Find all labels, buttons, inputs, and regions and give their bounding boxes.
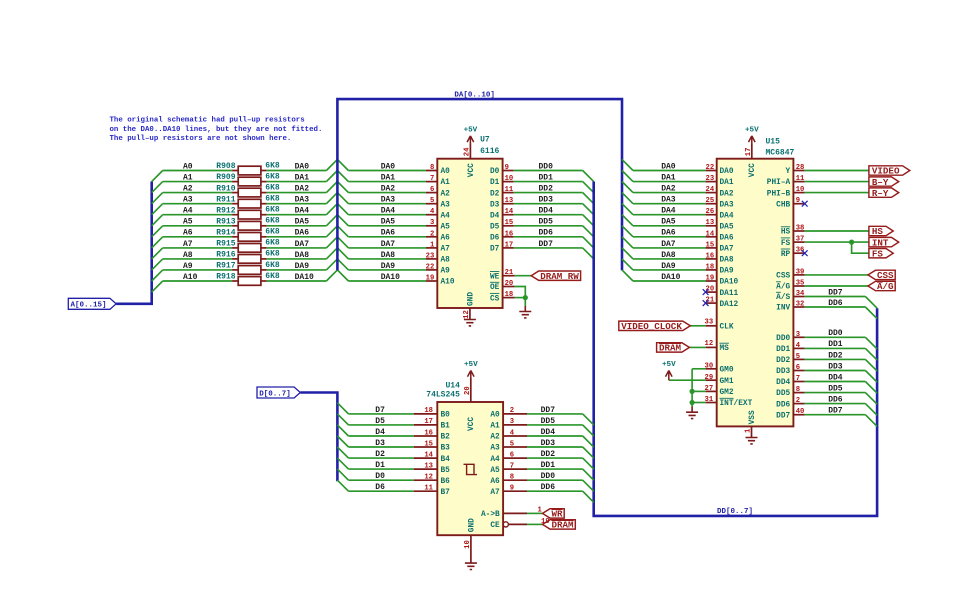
wire DA4 to U7.A4 [348,214,426,216]
U14 pin 5 (A3) stub [503,446,527,448]
svg-text:27: 27 [705,385,714,393]
U14 pin name A2 [490,434,500,442]
wire DD3 from U14.A3 [527,446,583,448]
svg-text:R–Y: R–Y [872,188,889,199]
label DA7 (left) [295,240,310,249]
svg-text:DA12: DA12 [720,301,739,309]
svg-text:23: 23 [426,252,435,260]
wire DD6 from U15 [805,403,866,405]
svg-text:DA7: DA7 [381,240,396,249]
svg-text:B6: B6 [441,478,451,486]
wire DD1 from U7.D1 [514,181,583,183]
U7 pin number 20 [505,280,514,288]
wire DA1 after resistor [267,181,327,183]
junction OE/CS [523,295,528,300]
label DD6 (right) [828,396,843,405]
bus entry D bus to U14.B7 [337,480,348,491]
label DD2 (right) [828,351,843,360]
wire DA6 to U7.A6 [348,236,426,238]
U7 pin 21 (WE) stub [503,275,515,277]
svg-text:6K8: 6K8 [265,250,280,259]
global label A/G (A active low) [868,281,895,292]
U14 pin number 18 [424,407,433,415]
U15 pin number 29 [705,374,714,382]
U15 pin 35 (A/G) stub [793,285,804,287]
svg-text:2: 2 [430,230,434,238]
wire DD6 from U7.D6 [514,236,583,238]
U7 pin number 13 [505,197,514,205]
svg-text:DD2: DD2 [828,351,843,360]
wire OE down to CS [515,287,526,298]
svg-text:VCC: VCC [749,163,757,177]
bus entry DD6 into right DD bus [865,404,877,416]
U14 pin name A->B [481,511,500,519]
wire DA0 to U15.DA0 [633,170,706,172]
svg-text:33: 33 [705,319,714,327]
bus entry DA10 into DA bus (left side) [326,270,337,281]
U14 pin number 9 [510,485,514,493]
global label B-Y [869,177,899,188]
svg-text:A9: A9 [183,262,193,271]
svg-text:A6: A6 [183,229,193,238]
svg-text:6K8: 6K8 [265,206,280,215]
wire DA7 to U15.DA7 [633,247,706,249]
U7 pin 17 (D7) stub [503,247,514,249]
svg-text:FS: FS [872,248,884,259]
bus entry DA0 out of DA bus to U15 [622,159,633,170]
U7 GND pin 12 with ground [463,292,476,326]
label DA5 (at U7) [381,218,396,227]
bus entry DA7 into DA bus (left side) [326,237,337,248]
wire DD4 from U15 [805,381,866,383]
svg-text:The original schematic had pul: The original schematic had pull–up resis… [110,117,305,125]
bus entry DD0 into DD bus [583,171,594,182]
bus entry DA1 into DA bus (left side) [326,171,337,182]
bus entry DA2 out of DA bus (right side) [337,182,348,193]
bus entry A3 [152,204,163,215]
U14 pin name B4 [441,456,451,464]
resistor R918 6K8 [216,272,280,286]
U15 pin number 9 [796,197,800,205]
U7 pin number 2 [430,230,434,238]
U14 direction glyph [464,464,478,474]
U7 pin name CS (active low) [490,293,500,303]
U15 pin name DD3 [776,368,790,376]
svg-text:16: 16 [505,230,514,238]
svg-text:A/G: A/G [877,281,894,292]
U7 pin number 10 [505,175,514,183]
svg-text:DD5: DD5 [541,417,556,426]
svg-text:2: 2 [510,407,514,415]
svg-text:DA3: DA3 [381,196,396,205]
ground at U7 OE/CS [519,306,531,318]
U15 pin number 3 [796,331,800,339]
svg-text:DA1: DA1 [661,174,676,183]
svg-text:DA9: DA9 [661,262,676,271]
svg-text:B–Y: B–Y [872,177,889,188]
svg-text:DD7: DD7 [539,240,554,249]
label DA4 (left) [295,207,310,216]
U15 pin number 18 [706,263,715,271]
U15 pin number 23 [706,175,715,183]
wire DA8 to U15.DA8 [633,258,706,260]
U7 pin number 7 [430,175,434,183]
label DA5 (at U15) [661,218,676,227]
svg-text:17: 17 [745,148,753,157]
label D6 [375,483,385,492]
resistor R909 6K8 [216,172,280,186]
svg-text:DA8: DA8 [295,251,310,260]
label DD1 [541,461,556,470]
wire CS to junction [515,297,526,299]
svg-text:DA10: DA10 [661,273,680,282]
U15 pin name RP [781,249,791,259]
svg-text:DA4: DA4 [295,207,310,216]
bus entry DD2 into DD bus [583,458,594,469]
U7 pin 16 (D6) stub [503,236,514,238]
bus entry DD5 into DD bus [583,226,594,237]
bus entry DA10 out of DA bus (right side) [337,270,348,281]
U14 pin number 2 [510,407,514,415]
wire DD6 from U14.A7 [527,490,583,492]
U15 pin number 37 [796,236,805,244]
wire DD3 from U7.D3 [514,203,583,205]
label DA6 (at U15) [661,229,676,238]
U14 pin 12 (B6) stub [414,479,438,481]
U15 pin number 38 [796,225,805,233]
U7 reference U7 [480,135,490,144]
U15 pin number 30 [705,362,714,370]
U7 pin 7 (A1) stub [426,181,437,183]
U7 pin number 9 [505,164,509,172]
svg-text:25: 25 [706,197,715,205]
label DD7 (at A/S) [828,288,843,297]
svg-text:6K8: 6K8 [265,228,280,237]
global label DRAM (active low) [543,520,576,531]
label DA3 (left) [295,196,310,205]
svg-text:6K8: 6K8 [265,172,280,181]
wire A4 to R912 [163,214,232,216]
U15 pin name DA8 [720,257,734,265]
bus entry DD3 into DD bus [583,447,594,458]
bus entry DD5 into DD bus [583,425,594,436]
svg-text:DD6: DD6 [828,396,843,405]
U14 pin name A0 [490,412,500,420]
svg-text:5: 5 [510,440,514,448]
svg-text:DD3: DD3 [828,362,843,371]
label DA8 (at U15) [661,251,676,260]
label DD0 (right) [828,329,843,338]
wire DD7 from U15 [805,414,866,416]
global label R-Y [869,188,899,199]
label D3 [375,439,385,448]
svg-text:PHI–A: PHI–A [767,179,791,187]
svg-text:18: 18 [424,407,433,415]
U15 pin number 16 [706,252,715,260]
label DD2 (at U7) [539,185,554,194]
svg-text:9: 9 [505,164,509,172]
U15 pin number 27 [705,385,714,393]
bus entry DD7 into DD bus [583,248,594,259]
svg-text:D1: D1 [375,461,385,470]
U7 pin name A1 [441,179,451,187]
svg-text:DA1: DA1 [720,179,734,187]
svg-text:12: 12 [705,340,714,348]
U7 pin 18 (CS) stub [503,297,515,299]
svg-text:INT: INT [872,237,889,248]
label A0 [183,162,193,171]
U15 pin name DA6 [720,235,734,243]
bus DD[0..7] [594,182,877,516]
wire DA2 to U7.A2 [348,192,426,194]
U15 pin number 22 [706,164,715,172]
wire DA6 to U15.DA6 [633,236,706,238]
bus entry A10 [152,281,163,292]
svg-text:DD4: DD4 [776,379,790,387]
U7 pin 8 (A0) stub [426,170,437,172]
U7 pin 14 (D4) stub [503,214,514,216]
U15 pin 8 (DD5) stub [793,392,804,394]
bus entry DD6 (INV) into right DD bus [865,307,877,319]
U15 pin number 10 [796,186,805,194]
bus entry A6 [152,237,163,248]
svg-text:D[0..7]: D[0..7] [259,390,291,398]
svg-text:B4: B4 [441,456,451,464]
svg-text:5: 5 [430,197,434,205]
svg-text:DA10: DA10 [381,273,400,282]
svg-text:R916: R916 [216,251,235,260]
junction FS branch [849,240,854,245]
wire D2 to U14.B4 [349,457,414,459]
svg-text:A7: A7 [490,489,500,497]
U15 pin 5 (DD2) stub [793,358,804,360]
svg-text:D2: D2 [375,450,385,459]
wire D4 to U14.B2 [349,435,414,437]
U7 pin name A4 [441,212,451,220]
wire DD7 from A/S [805,296,866,298]
U15 pin name DD7 [776,412,790,420]
U14 pin number 3 [510,418,514,426]
U14 pin number 5 [510,440,514,448]
U15 pin 29 (GM1) stub [706,379,717,381]
label DD6 (at U7) [539,229,554,238]
svg-text:A1: A1 [441,179,451,187]
resistor R911 6K8 [216,195,280,209]
U14 pin 8 (A6) stub [503,479,527,481]
global label VIDEO_CLOCK [619,321,691,332]
label DA3 (at U15) [661,196,676,205]
svg-text:D0: D0 [490,168,500,176]
U7 pin 20 (OE) stub [503,286,515,288]
U7 pin name A0 [441,168,451,176]
bus entry DD6 into DD bus [583,237,594,248]
global label FS [869,248,893,259]
svg-text:DA0: DA0 [295,162,310,171]
U14 pin number 4 [510,429,515,437]
svg-text:D4: D4 [375,428,385,437]
U7 pin number 4 [430,208,435,216]
wire DD4 from U7.D4 [514,214,583,216]
svg-text:D7: D7 [490,246,500,254]
U15 pin 34 (A/S) stub [793,296,804,298]
U15 pin 9 (CHB) stub [793,203,804,205]
wire D0 to U14.B6 [349,479,414,481]
label A8 [183,251,193,260]
svg-text:12: 12 [424,474,433,482]
wire A7 to R915 [163,247,232,249]
U15 pin 22 (DA0) stub [706,170,717,172]
svg-text:DD2: DD2 [539,185,554,194]
svg-text:13: 13 [424,462,433,470]
svg-text:6: 6 [510,451,514,459]
wire GM1 row with +5V [669,379,706,381]
bus entry DD6 into DD bus [583,491,594,502]
svg-text:32: 32 [796,301,805,309]
svg-text:DD7: DD7 [828,407,843,416]
label D4 [375,428,385,437]
bus entry D bus to U14.B1 [337,414,348,425]
svg-text:DA[0..10]: DA[0..10] [454,92,495,100]
label DD0 (at U7) [539,162,554,171]
svg-text:A0: A0 [441,168,451,176]
wire GM2 row [692,390,706,392]
U15 pin number 8 [796,386,800,394]
U14 pin name B1 [441,423,451,431]
U15 pin name DA4 [720,212,734,220]
U7 pin number 8 [430,164,434,172]
resistor R914 6K8 [216,228,280,242]
label DA9 (at U7) [381,262,396,271]
no-connect X on DA12 [703,300,709,306]
wire DA1 to U7.A1 [348,181,426,183]
label DD3 [541,439,556,448]
bus entry A7 [152,248,163,259]
U14 pin 19 (CE) stub with bubble [503,522,527,527]
svg-text:VCC: VCC [468,163,476,177]
U15 pin name PHI–A [767,179,791,187]
note text [110,117,323,144]
bus entry DD0 into DD bus [583,480,594,491]
bus entry DD1 into DD bus [583,469,594,480]
label DA6 (at U7) [381,229,396,238]
svg-text:20: 20 [505,280,514,288]
U15 pin 12 (MS) stub [706,346,717,348]
U14 pin 3 (A1) stub [503,424,527,426]
junction INT/EXT [690,400,695,405]
svg-text:20: 20 [464,386,472,395]
svg-text:DA5: DA5 [381,218,396,227]
U15 pin name GM2 [720,389,734,397]
svg-text:A10: A10 [441,279,455,287]
svg-text:8: 8 [430,164,434,172]
U14 pin number 13 [424,462,433,470]
U7 pin 5 (A3) stub [426,203,437,205]
wire A/G to A/G label [805,285,868,287]
svg-text:A5: A5 [183,218,193,227]
U14 pin number 1 [538,506,543,514]
svg-text:19: 19 [426,275,435,283]
U15 pin name Y [786,168,791,176]
U7 pin number 15 [505,219,514,227]
U15 pin 23 (DA1) stub [706,181,717,183]
svg-text:9: 9 [796,197,800,205]
wire DD7 from U7.D7 [514,247,583,249]
U15 value MC6847 [766,148,795,157]
wire DA5 to U7.A5 [348,225,426,227]
U15 pin 11 (PHI–A) stub [793,181,804,183]
wire DRAM to MS [689,346,705,348]
wire A6 to R914 [163,236,232,238]
label DD2 [541,450,556,459]
svg-text:B5: B5 [441,467,451,475]
wire DA10 to U7.A10 [348,280,426,282]
svg-text:6K8: 6K8 [265,272,280,281]
svg-text:6: 6 [430,186,434,194]
label DA10 (at U7) [381,273,400,282]
wire DA2 after resistor [267,192,327,194]
svg-text:DD4: DD4 [828,373,843,382]
wire DD1 from U15 [805,347,866,349]
label DA0 (at U7) [381,162,396,171]
svg-text:R914: R914 [216,229,235,238]
wire D3 to U14.B3 [349,446,414,448]
svg-text:MS: MS [720,345,730,353]
bus entry DA1 out of DA bus (right side) [337,171,348,182]
wire A2 to R910 [163,192,232,194]
svg-text:A/G: A/G [776,284,790,292]
U15 pin 30 (GM0) stub [706,368,717,370]
bus entry DD2 into right DD bus [865,359,877,371]
label DD4 [541,428,556,437]
U15 pin 4 (DD1) stub [793,347,804,349]
U14 pin number 11 [424,485,433,493]
U7 pin 10 (D1) stub [503,181,514,183]
bus entry D bus to U14.B0 [337,403,348,414]
U7 pin name A6 [441,235,451,243]
U15 pin 19 (DA10) stub [706,280,717,282]
wire A1 to R909 [163,181,232,183]
svg-text:40: 40 [796,408,805,416]
U7 pin 15 (D5) stub [503,225,514,227]
wire DA3 to U7.A3 [348,203,426,205]
global label INT [869,237,899,248]
svg-text:3: 3 [430,219,434,227]
label DD4 (right) [828,373,843,382]
U14 pin name B0 [441,412,451,420]
label DA10 (at U15) [661,273,680,282]
wire A->B to WR label [527,512,543,514]
svg-text:DA3: DA3 [295,196,310,205]
U7 pin name D3 [490,201,500,209]
U15 pin name FS [781,238,791,248]
svg-text:B1: B1 [441,423,451,431]
svg-text:29: 29 [705,374,714,382]
svg-text:DA5: DA5 [295,218,310,227]
U14 pin number 16 [424,429,433,437]
U15 pin 32 (INV) stub [793,306,804,308]
U7 pin name D2 [490,190,500,198]
bus entry D bus to U14.B2 [337,425,348,436]
svg-text:DD3: DD3 [541,439,556,448]
svg-text:B7: B7 [441,489,451,497]
wire A10 to R918 [163,280,232,282]
U15 pin 6 (DD3) stub [793,370,804,372]
U7 pin 3 (A5) stub [426,225,437,227]
U7 pin name WE (active low) [490,272,500,282]
bus D[0..7] [300,393,337,482]
wire DA10 after resistor [267,280,327,282]
svg-text:DD5: DD5 [828,384,843,393]
